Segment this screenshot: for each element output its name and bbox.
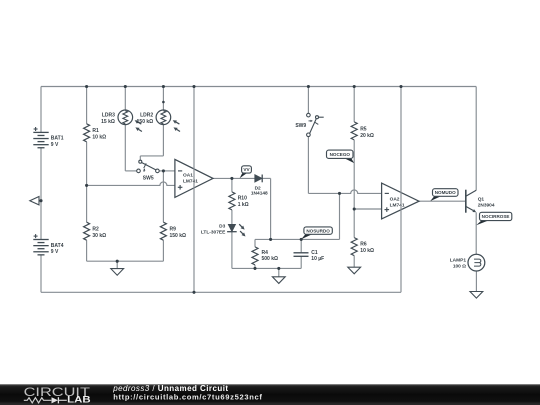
wire R6 top <box>353 209 355 238</box>
wire SW9 top <box>307 87 309 114</box>
svg-text:10 µF: 10 µF <box>311 256 324 262</box>
svg-text:10 kΩ: 10 kΩ <box>92 134 106 140</box>
wire vertical mid (x=194) <box>193 87 195 293</box>
resistor R2 <box>84 222 90 240</box>
junction dot LDR2 stem <box>162 101 165 104</box>
wire LDR2 to SW5 pivot <box>140 155 163 157</box>
svg-text:100 Ω: 100 Ω <box>453 264 466 270</box>
svg-text:D3: D3 <box>219 223 225 229</box>
wire R4-C1 top bus <box>255 238 340 240</box>
wire R5 bottom to plus node <box>353 140 355 209</box>
ground left (battery node) <box>30 197 39 205</box>
svg-text:C1: C1 <box>311 250 318 256</box>
op-amp OA2 <box>382 183 419 219</box>
svg-text:R4: R4 <box>262 250 269 256</box>
resistor R1 <box>84 124 90 142</box>
wire nosurdo riser <box>339 193 341 239</box>
junction dot R10 top <box>230 177 233 180</box>
junction dot OA2 plus node <box>353 207 356 210</box>
resistor R6 <box>351 238 357 256</box>
svg-text:OA2: OA2 <box>390 197 400 203</box>
node flag NOMUDO <box>430 196 441 201</box>
wire R5 top <box>353 87 355 122</box>
svg-text:9 V: 9 V <box>51 142 59 148</box>
wire to OA2 minus (hop over x=354.2) <box>308 190 381 193</box>
wire lamp ground stem <box>475 271 477 292</box>
resistor R9 <box>160 222 166 240</box>
svg-text:2N3904: 2N3904 <box>478 203 495 209</box>
svg-text:NOMUDO: NOMUDO <box>435 190 456 195</box>
wire R10 top <box>231 178 233 192</box>
svg-text:R9: R9 <box>170 227 177 233</box>
wire C1 top <box>300 239 302 252</box>
svg-text:http://circuitlab.com/c7tu69z5: http://circuitlab.com/c7tu69z523ncf <box>113 393 262 402</box>
junction dot bottom rail x=194 <box>192 291 195 294</box>
svg-text:150 kΩ: 150 kΩ <box>170 233 187 239</box>
diode D2 <box>255 175 262 182</box>
wire R2 top <box>86 185 88 222</box>
svg-text:BAT4: BAT4 <box>51 243 64 249</box>
svg-text:LM741: LM741 <box>183 178 198 184</box>
wire R10 to LED <box>231 210 233 225</box>
junction dot R1/R2 plus node <box>85 184 88 187</box>
op-amp OA1 <box>175 159 213 197</box>
junction dot left ground <box>39 199 42 202</box>
ground below C1 bus <box>272 277 285 284</box>
wire R9 top (minus node down) <box>162 171 164 222</box>
wire D2 cathode <box>262 177 270 179</box>
svg-text:OA1: OA1 <box>183 173 193 179</box>
ground below R6 <box>348 267 361 274</box>
wire left rail middle <box>40 148 42 240</box>
svg-text:1 kΩ: 1 kΩ <box>238 202 249 208</box>
capacitor C1 <box>294 252 309 254</box>
LED D3 <box>228 224 235 231</box>
svg-text:VV: VV <box>243 167 250 172</box>
wire Q1 collector riser <box>475 87 477 191</box>
wire R1 bottom <box>86 142 88 186</box>
wire bottom rail <box>41 291 401 293</box>
svg-text:R5: R5 <box>360 127 367 133</box>
wire to OA2 plus <box>354 208 381 210</box>
photoresistor LDR3 <box>118 110 133 125</box>
junction dot OA2 minus riser <box>338 192 341 195</box>
junction dot D2 corner bus <box>269 238 272 241</box>
svg-text:R2: R2 <box>92 227 99 233</box>
svg-text:10 kΩ: 10 kΩ <box>360 248 374 254</box>
transistor Q1 <box>465 190 467 213</box>
wire R6 to ground <box>353 256 355 268</box>
node flag VV <box>240 173 247 178</box>
svg-text:SW9: SW9 <box>295 123 306 129</box>
wire Q1 emitter drop <box>475 212 477 254</box>
junction dot mid ground <box>277 267 280 270</box>
svg-text:30 kΩ: 30 kΩ <box>92 233 106 239</box>
svg-text:BAT1: BAT1 <box>51 136 64 142</box>
ground below R2/R9 <box>111 269 124 276</box>
wire R9 bottom <box>162 240 164 261</box>
wire R1 top <box>86 87 88 124</box>
wire OA1 output <box>213 177 255 179</box>
svg-text:Q1: Q1 <box>478 196 485 202</box>
resistor R4 <box>252 247 258 265</box>
resistor R10 <box>229 192 235 210</box>
wire left rail lower <box>40 255 42 292</box>
wire SW9 bottom drop <box>307 137 309 194</box>
node flag NOCIRROSE <box>476 221 488 226</box>
battery BAT4 <box>33 239 48 241</box>
junction dot minus node <box>162 169 165 172</box>
switch SW9 <box>307 113 311 117</box>
wire to OA1 plus (hop over x=163.4) <box>87 182 175 186</box>
wire left ground stem <box>39 200 41 202</box>
wire LDR2 bottom <box>162 124 164 155</box>
wire C1 bottom <box>300 256 302 268</box>
svg-text:20 kΩ: 20 kΩ <box>360 133 374 139</box>
svg-text:1N4148: 1N4148 <box>251 191 268 197</box>
svg-text:150 kΩ: 150 kΩ <box>137 119 154 125</box>
wire D2 corner down <box>270 178 272 239</box>
junction dot C1 top <box>300 238 303 241</box>
wire R2-R9 ground bus <box>87 260 164 262</box>
junction dots top rail <box>85 85 88 88</box>
wire LDR2 top <box>162 87 164 111</box>
svg-text:SW5: SW5 <box>143 175 154 181</box>
wire LDR3 to SW5 <box>125 170 136 172</box>
battery BAT1 <box>33 131 48 133</box>
junction dot R4 bottom <box>253 267 256 270</box>
svg-text:NOSURDO: NOSURDO <box>306 228 330 233</box>
svg-text:9 V: 9 V <box>51 249 59 255</box>
wire LED bottom <box>231 232 233 269</box>
node flag NOCEGO <box>345 158 355 163</box>
node flag NOSURDO <box>301 234 312 239</box>
wire ground stem left-bus <box>116 261 118 268</box>
lamp LAMP1 <box>468 254 485 271</box>
ground below LAMP1 <box>470 292 483 299</box>
svg-text:LDR3: LDR3 <box>102 112 115 118</box>
svg-text:NOCEGO: NOCEGO <box>330 152 351 157</box>
wire top rail <box>41 86 476 88</box>
svg-text:500 kΩ: 500 kΩ <box>262 256 279 262</box>
svg-text:NOCIRROSE: NOCIRROSE <box>482 214 510 219</box>
svg-text:LAMP1: LAMP1 <box>450 258 467 264</box>
wire ground stem mid <box>278 268 280 276</box>
svg-text:R6: R6 <box>360 242 367 248</box>
wire R4 bottom <box>254 265 256 269</box>
resistor R5 <box>351 122 357 140</box>
svg-text:LM741: LM741 <box>390 202 405 208</box>
svg-text:LDR2: LDR2 <box>140 112 153 118</box>
wire left rail upper <box>40 87 42 133</box>
wire LDR3 bottom <box>124 124 126 170</box>
wire vertical right (x=401) <box>400 87 402 293</box>
svg-text:R10: R10 <box>238 196 247 202</box>
switch SW5 <box>137 169 141 173</box>
wire LDR3 top <box>124 87 126 111</box>
wire OA2 output <box>419 200 465 202</box>
svg-text:D2: D2 <box>255 185 261 191</box>
wire R2 bottom <box>86 240 88 261</box>
svg-text:15 kΩ: 15 kΩ <box>101 119 115 125</box>
wire R4 top <box>254 239 256 247</box>
wire SW5 to OA1 minus <box>159 170 175 172</box>
wire lower bus (LED-C1) <box>232 267 301 269</box>
junction dot ground bus <box>116 260 119 263</box>
svg-text:R1: R1 <box>92 128 99 134</box>
svg-text:LTL-307EE: LTL-307EE <box>201 230 226 236</box>
photoresistor LDR2 <box>156 110 171 125</box>
svg-text:LAB: LAB <box>67 395 91 405</box>
